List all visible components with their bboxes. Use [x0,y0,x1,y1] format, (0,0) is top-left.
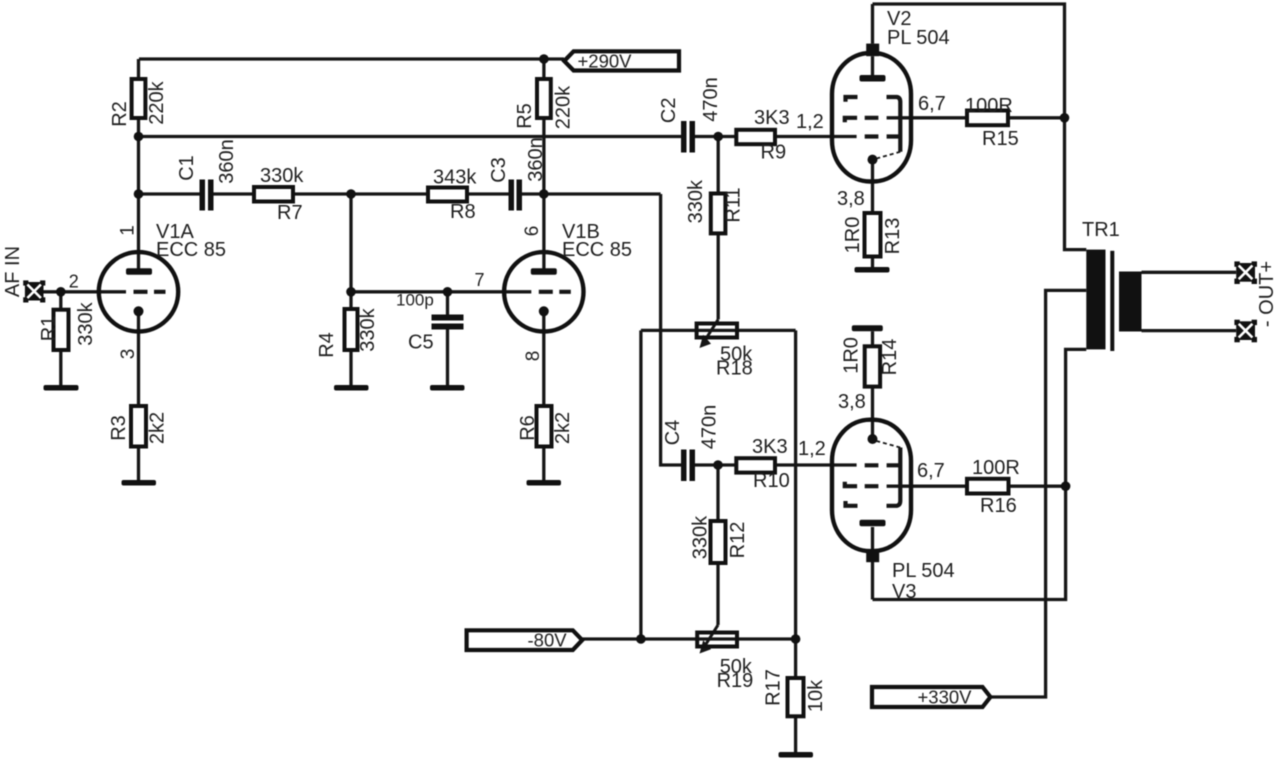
svg-text:100R: 100R [972,457,1020,479]
svg-text:1R0: 1R0 [841,337,863,374]
svg-text:2k2: 2k2 [147,412,169,444]
svg-text:6,7: 6,7 [918,93,946,115]
svg-text:ECC 85: ECC 85 [562,239,632,261]
svg-text:3K3: 3K3 [754,107,790,129]
svg-text:R18: R18 [716,358,753,380]
svg-text:330k: 330k [690,515,712,559]
svg-text:470n: 470n [700,77,722,122]
svg-text:R15: R15 [982,128,1019,150]
svg-text:7: 7 [474,270,484,290]
svg-text:V3: V3 [892,581,916,603]
svg-text:R4: R4 [316,332,338,358]
svg-text:343k: 343k [433,167,477,189]
svg-text:R10: R10 [753,470,790,492]
svg-text:470n: 470n [699,405,721,450]
svg-text:330k: 330k [685,179,707,223]
svg-text:330k: 330k [260,165,304,187]
svg-text:6: 6 [522,226,543,237]
svg-text:220k: 220k [553,85,575,129]
svg-text:- OUT+: - OUT+ [1256,261,1278,327]
svg-text:360n: 360n [525,137,547,182]
svg-text:3: 3 [118,349,139,360]
svg-text:2k2: 2k2 [552,412,574,444]
svg-text:C3: C3 [488,157,510,183]
svg-text:3,8: 3,8 [837,188,865,210]
svg-text:R12: R12 [727,522,749,559]
svg-text:R19: R19 [717,670,754,692]
svg-text:100R: 100R [965,95,1013,117]
svg-text:6,7: 6,7 [917,460,945,482]
svg-text:C1: C1 [176,155,198,181]
svg-text:R2: R2 [109,101,131,127]
svg-text:1: 1 [117,225,138,236]
svg-text:10k: 10k [805,679,827,712]
svg-text:AF IN: AF IN [2,246,24,297]
svg-text:R7: R7 [277,202,303,224]
svg-text:C4: C4 [662,420,684,446]
svg-text:220k: 220k [146,80,168,124]
svg-text:360n: 360n [216,139,238,184]
svg-text:ECC 85: ECC 85 [156,239,226,261]
svg-text:100p: 100p [396,291,434,310]
svg-text:TR1: TR1 [1082,219,1120,241]
svg-text:R11: R11 [723,187,745,222]
svg-text:R17: R17 [763,669,785,706]
svg-text:R16: R16 [980,495,1017,517]
svg-text:PL 504: PL 504 [892,560,955,582]
svg-text:3,8: 3,8 [838,391,866,413]
svg-text:R8: R8 [450,201,476,223]
svg-text:C2: C2 [658,98,680,124]
svg-text:1R0: 1R0 [842,217,864,254]
svg-text:8: 8 [523,351,544,362]
svg-text:+290V: +290V [578,51,633,72]
svg-text:2: 2 [69,272,79,292]
svg-text:R13: R13 [882,218,904,255]
svg-text:330k: 330k [75,301,97,345]
svg-text:+330V: +330V [918,687,973,708]
svg-text:1,2: 1,2 [796,111,824,133]
svg-text:1,2: 1,2 [798,438,826,460]
svg-text:C5: C5 [408,332,434,354]
svg-text:3K3: 3K3 [752,436,788,458]
svg-text:-80V: -80V [528,630,568,651]
svg-text:R14: R14 [879,339,901,376]
svg-text:330k: 330k [357,307,379,351]
svg-text:R5: R5 [514,103,536,129]
svg-text:R6: R6 [517,415,539,441]
svg-text:PL 504: PL 504 [887,27,950,49]
svg-text:R3: R3 [108,415,130,441]
svg-text:R1: R1 [38,316,60,342]
svg-text:R9: R9 [761,142,787,164]
